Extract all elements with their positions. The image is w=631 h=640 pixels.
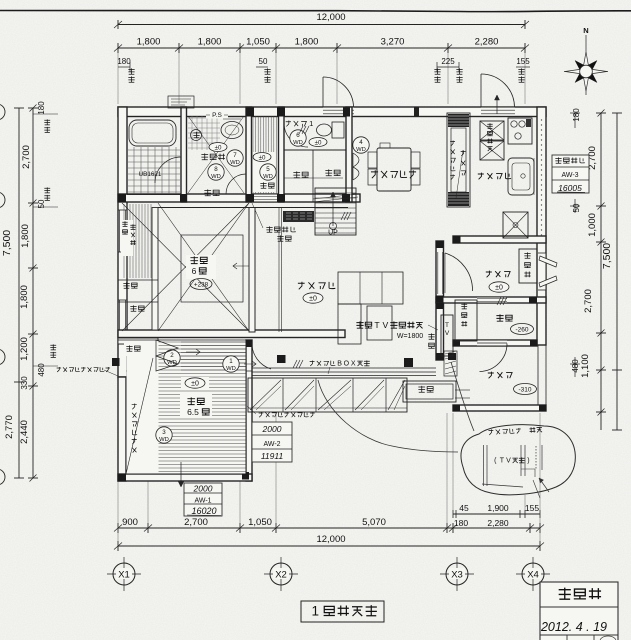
svg-text:16020: 16020 [191,506,216,516]
bedroom hatch floor [127,341,246,474]
porch right edge thin [537,345,539,411]
svg-text:12,000: 12,000 [316,534,345,545]
svg-text:X3: X3 [451,570,463,581]
svg-text:50: 50 [259,57,268,66]
svg-text:±0: ±0 [315,139,322,146]
toilet door arc [284,123,308,147]
entrance opening in right wall [538,253,546,290]
washroom labels [209,143,227,152]
svg-text:180: 180 [572,108,581,122]
hall west wall [436,241,444,302]
svg-text:+238: +238 [194,282,209,289]
washitsu diagonals [122,203,249,331]
tenbukuro label [130,305,136,311]
bath door arc [155,157,181,183]
washroom tile corner [188,117,220,119]
svg-text:3,270: 3,270 [381,37,405,48]
door arc A top wall [322,77,324,107]
svg-text:2000: 2000 [193,484,213,494]
right exterior wall [537,107,546,345]
genkan label [496,314,503,321]
closet label [132,404,137,410]
AW-1 tag box [184,483,222,516]
floor plan title box 1F [301,601,384,622]
hall door arc [445,253,473,291]
AW-3 window tag box [552,155,589,193]
svg-text:T: T [374,320,380,330]
svg-text:T: T [500,458,505,465]
svg-text:5: 5 [266,166,270,173]
porch label [488,372,494,379]
door arc B top wall [480,74,482,107]
svg-text:WD: WD [226,366,236,372]
cloud sketch lines [483,445,485,486]
small arrows bedroom [186,349,200,355]
bath unit UB1621 [127,117,181,195]
wd4 [353,137,369,153]
cloud text counter move [488,427,542,435]
top dimension segments [118,47,525,49]
X grid markers [123,557,125,591]
svg-text:±0: ±0 [191,380,199,387]
svg-text:1,050: 1,050 [248,517,272,528]
corridor floor hatch [252,117,254,195]
svg-text:2,280: 2,280 [487,518,509,528]
svg-text:8: 8 [214,166,218,173]
svg-text:50: 50 [572,203,581,212]
oshiire dividers [118,279,158,281]
tokonoma hatch [123,204,125,278]
hatched sill below tv cabinet [444,351,457,376]
title block kakutei-zu [540,582,618,640]
kazaridana shelf dark bar [283,211,314,222]
svg-text:2: 2 [170,352,174,359]
svg-text:N: N [583,26,588,35]
wall bath/washroom [181,107,187,202]
svg-text:480: 480 [37,363,46,377]
wd circles bedroom [164,350,180,366]
monoire shelf lines [284,177,343,179]
top exterior wall [118,107,546,117]
svg-text:-260: -260 [515,327,528,334]
tv wall column [436,303,444,360]
left wall window 2 [119,300,126,344]
left edge grid circles [0,104,5,120]
genkan/porch wall [453,340,537,346]
svg-text:16005: 16005 [558,183,582,193]
bedroom south arrow [180,462,182,486]
jibukuro label [428,333,434,339]
svg-text:155: 155 [525,503,539,513]
svg-text:T: T [445,322,449,329]
kitchen counter [447,113,470,207]
svg-text:±0: ±0 [309,295,317,302]
kitchen label [478,173,484,180]
getabako [519,249,537,283]
washitsu south wall [118,330,345,338]
svg-text:225: 225 [441,57,455,66]
svg-text:1,200: 1,200 [19,337,30,361]
svg-text:3: 3 [162,429,166,436]
flower bed [403,381,456,402]
PS label [206,112,228,119]
svg-text:4: 4 [359,139,363,146]
bath tub [129,120,176,146]
svg-text:X: X [351,361,356,368]
bedroom door arc [252,342,271,369]
porch door arc [477,342,507,344]
svg-text:45: 45 [459,503,469,513]
coffee table [367,306,392,340]
svg-text:1,050: 1,050 [246,37,270,48]
svg-text:WD: WD [159,437,169,443]
folding door triangles [156,340,178,356]
svg-text:6.5: 6.5 [187,407,199,417]
svg-text:480: 480 [571,359,580,373]
washitsu west closet wall [152,208,158,331]
svg-text:7,500: 7,500 [601,243,613,269]
entrance double door leaves [539,256,557,267]
svg-text:2000: 2000 [262,424,282,434]
cloud leader 2 from tv cabinet [451,362,474,431]
kitchen wall stipple [541,119,542,120]
svg-text:B: B [337,361,342,368]
tv box [441,315,453,356]
left dimension lines [18,108,20,478]
living south wall/window [252,367,436,369]
stairs [315,188,356,235]
svg-text:O: O [344,361,350,368]
svg-text:X2: X2 [275,570,287,581]
svg-text:UP: UP [328,230,338,237]
deck strip [248,378,407,412]
svg-text:1,800: 1,800 [20,224,31,248]
living sofa [338,272,403,304]
bedroom labels bg [181,377,209,390]
bottom dims row1 right [453,513,540,515]
dining label [371,170,378,178]
hall label [486,271,492,278]
svg-text:AW-3: AW-3 [561,172,578,179]
top wall door opening B thin lines [481,108,515,116]
living label [298,282,305,290]
svg-text:WD: WD [230,160,240,166]
bottom dims row2 [118,527,540,529]
svg-text:2,280: 2,280 [475,37,499,48]
svg-text:2,440: 2,440 [19,420,30,444]
svg-text:WD: WD [211,174,221,180]
washroom door arc [226,174,246,194]
shitasokuire tall box [455,300,477,341]
AW-2 tag box [252,422,292,462]
expansion joint label left [57,367,62,372]
left wall window 1 [119,210,126,252]
svg-text:5,070: 5,070 [362,517,386,528]
mid horizontal wall under bath row [118,194,360,202]
svg-text:1: 1 [309,119,313,128]
washitsu label [186,255,216,279]
wall washroom/corridor [246,107,252,202]
svg-text:±0: ±0 [495,284,503,291]
sliding arrow washitsu [233,263,249,269]
tv cabinet note [356,321,363,328]
porch bottom wall [453,405,546,411]
washitsu north wall line [158,201,348,203]
left exterior wall [118,107,127,377]
counter label [450,141,455,146]
kitchen south wall [453,236,546,243]
revision cloud [461,425,575,495]
right dimension lines [600,113,602,430]
expansion joint label 2 [259,412,264,417]
kitchen-dining boundary post [414,107,419,117]
paper edge line [0,10,631,12]
dining closet doors [352,153,354,180]
top wall door opening A thin lines [323,108,354,116]
kitchen sink [508,158,534,195]
svg-text:): ) [527,458,529,465]
svg-text:X1: X1 [118,570,130,581]
washitsu east wall [249,208,255,333]
svg-text:1,900: 1,900 [487,503,509,513]
toilet labels [286,121,291,127]
svg-text:AW-1: AW-1 [194,498,211,505]
svg-text:WD: WD [293,140,303,146]
svg-text:2,700: 2,700 [184,517,208,528]
svg-text:WD: WD [263,174,273,180]
yukamikiri label [266,226,272,232]
corridor labels [253,152,275,192]
svg-text:W=1800: W=1800 [397,333,423,340]
svg-text:1,800: 1,800 [198,37,222,48]
svg-text:V: V [445,330,450,337]
bedroom north boundary [118,339,252,341]
svg-text:2012. 4 . 19: 2012. 4 . 19 [540,620,607,634]
svg-text:2,700: 2,700 [21,145,32,169]
svg-text:X4: X4 [527,570,539,581]
toilet fixture [332,122,344,138]
svg-text:1,000: 1,000 [587,213,598,237]
wall corridor/toilet [279,107,285,202]
meter box on top wall [168,96,194,108]
svg-text:900: 900 [122,517,138,528]
black wall posts [246,108,254,117]
bedroom block outline [118,377,126,481]
washroom sink [221,122,243,139]
svg-text:180: 180 [117,57,131,66]
svg-text:1: 1 [229,358,233,365]
bath tile floor [128,149,180,151]
hall/genkan divider wall [436,297,546,303]
cloud leader curve [318,380,458,452]
hatch marks /// [299,126,303,134]
washitsu inner rect [181,235,243,302]
svg-text:1,800: 1,800 [295,37,319,48]
svg-text:7,500: 7,500 [1,230,13,256]
toilet/monoire divider [284,149,346,151]
svg-text:330: 330 [20,376,29,390]
svg-text:2,700: 2,700 [583,289,594,313]
left hashira-shin labels [44,119,50,125]
svg-text:1: 1 [311,604,319,619]
oshiire label [123,282,129,288]
svg-text:V: V [383,320,389,330]
curtain box note [310,361,315,366]
svg-text:7: 7 [233,152,237,159]
svg-text:±0: ±0 [215,144,222,151]
svg-text:180: 180 [454,518,468,528]
floor storage boxes [480,121,504,140]
svg-text:1,800: 1,800 [19,285,30,309]
dining table [377,148,411,191]
svg-text:P.S: P.S [212,112,222,119]
porch step [455,389,470,391]
stove [508,118,532,144]
svg-text:1,800: 1,800 [137,37,161,48]
svg-text:-310: -310 [518,387,531,394]
svg-text:UB1621: UB1621 [139,171,162,178]
svg-text:180: 180 [37,101,46,115]
svg-text:11911: 11911 [261,451,284,461]
kitchen floor X box [503,212,528,238]
living west track lines [278,208,280,333]
washing machine circle [191,130,202,141]
svg-text:1,100: 1,100 [580,354,591,378]
svg-text:6: 6 [192,266,197,276]
svg-text:AW-2: AW-2 [263,441,280,448]
svg-text:V: V [506,458,511,465]
svg-text:2,770: 2,770 [4,415,15,439]
monoire labels [204,189,211,196]
washroom diagonals [188,116,244,193]
wall toilet right [346,107,352,202]
shuuno label [124,343,150,356]
closet divider [154,344,156,474]
svg-text:155: 155 [516,57,530,66]
svg-text:WD: WD [356,147,366,153]
hall west door opening [437,252,443,294]
svg-text:±0: ±0 [259,154,266,161]
svg-text:12,000: 12,000 [316,12,345,23]
corridor south opening [253,195,277,202]
